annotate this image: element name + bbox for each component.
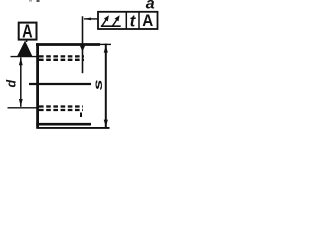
svg-text:s: s: [93, 79, 105, 90]
svg-text:A: A: [22, 21, 33, 41]
svg-text:A: A: [142, 12, 153, 30]
svg-text:d: d: [5, 80, 19, 88]
svg-text:a: a: [146, 0, 155, 13]
